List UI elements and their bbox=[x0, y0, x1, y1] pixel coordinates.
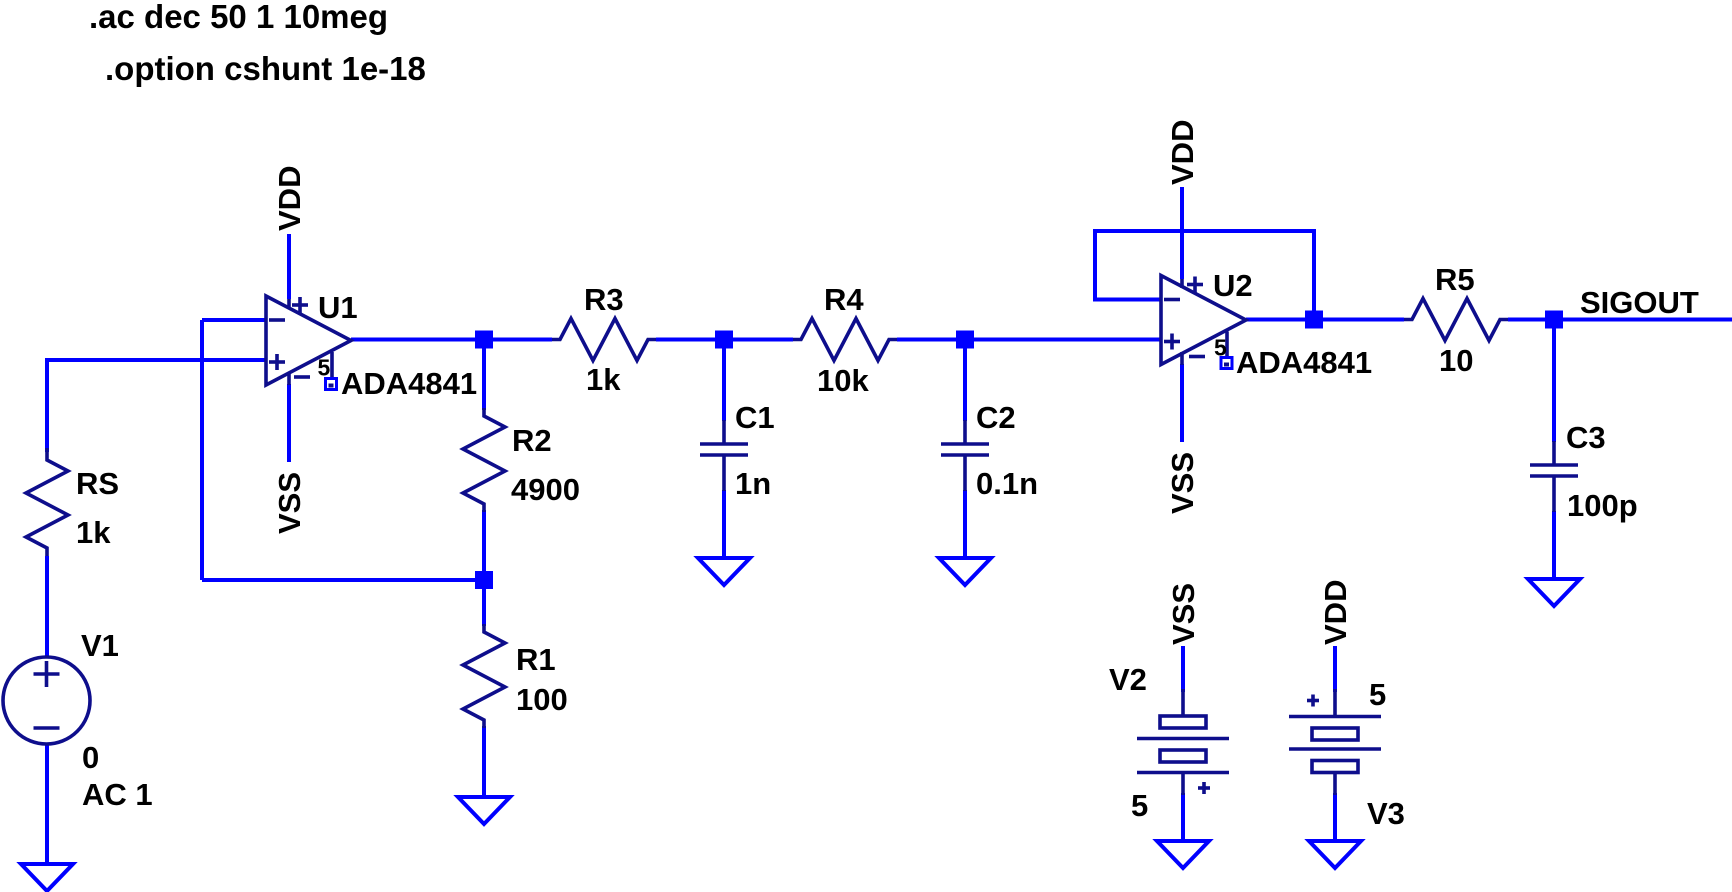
svg-text:VSS: VSS bbox=[1165, 452, 1200, 514]
svg-text:VSS: VSS bbox=[1166, 583, 1201, 645]
svg-text:V2: V2 bbox=[1109, 662, 1147, 697]
svg-text:5: 5 bbox=[1131, 788, 1148, 823]
svg-text:10: 10 bbox=[1439, 343, 1473, 378]
svg-text:RS: RS bbox=[76, 466, 119, 501]
svg-text:5: 5 bbox=[318, 355, 331, 381]
ground V3 bbox=[1309, 841, 1361, 868]
wire R1 to ground bbox=[482, 726, 486, 797]
svg-text:C1: C1 bbox=[735, 400, 775, 435]
voltage source V2 bbox=[1109, 662, 1229, 823]
svg-text:VDD: VDD bbox=[1165, 120, 1200, 185]
svg-text:R4: R4 bbox=[824, 282, 864, 317]
svg-text:0.1n: 0.1n bbox=[976, 466, 1038, 501]
svg-text:R1: R1 bbox=[516, 642, 556, 677]
svg-text:4900: 4900 bbox=[511, 472, 580, 507]
wire VDD to U1 bbox=[287, 234, 291, 299]
svg-text:0: 0 bbox=[82, 740, 99, 775]
svg-text:VDD: VDD bbox=[272, 166, 307, 231]
wire VSS to V2 bbox=[1181, 646, 1185, 692]
svg-text:AC 1: AC 1 bbox=[82, 777, 153, 812]
resistor RS bbox=[26, 448, 119, 556]
wire R4 to U2 plus input bbox=[897, 338, 1161, 342]
resistor R2 bbox=[463, 408, 580, 512]
svg-text:C3: C3 bbox=[1566, 420, 1606, 455]
wire V3 to ground bbox=[1333, 793, 1337, 841]
junction node U2 out bbox=[1305, 311, 1323, 329]
wire V2 to ground bbox=[1181, 793, 1185, 841]
junction node C2 bbox=[956, 331, 974, 349]
wire R2 to node bbox=[482, 510, 486, 580]
svg-text:100p: 100p bbox=[1567, 488, 1638, 523]
op-amp U2 bbox=[1161, 268, 1372, 380]
op-amp U1 bbox=[266, 290, 477, 401]
svg-text:1k: 1k bbox=[586, 362, 621, 397]
wire U1 minus input bbox=[202, 318, 266, 322]
wire V1 to ground bbox=[45, 744, 49, 864]
svg-text:U1: U1 bbox=[318, 290, 358, 325]
resistor R4 bbox=[793, 282, 897, 398]
wire SIGOUT node to C3 bbox=[1552, 320, 1556, 443]
wire VDD to U2 bbox=[1180, 187, 1184, 279]
junction node C1 bbox=[715, 331, 733, 349]
svg-text:.ac dec 50 1 10meg: .ac dec 50 1 10meg bbox=[89, 0, 388, 35]
wire U1 to VSS bbox=[287, 384, 291, 462]
ground V1 bbox=[21, 864, 73, 891]
wire VDD to V3 bbox=[1333, 646, 1337, 692]
junction node R2/R1 bbox=[475, 571, 493, 589]
ground C1 bbox=[698, 558, 750, 585]
junction node SIGOUT bbox=[1545, 311, 1563, 329]
wire RS to V1 bbox=[45, 556, 49, 658]
svg-text:V1: V1 bbox=[81, 628, 119, 663]
svg-text:VSS: VSS bbox=[272, 472, 307, 534]
ground C2 bbox=[939, 558, 991, 585]
wire node to R2 bbox=[482, 340, 486, 411]
svg-text:U2: U2 bbox=[1213, 268, 1253, 303]
wire U2 output to R5 bbox=[1246, 318, 1404, 322]
svg-text:SIGOUT: SIGOUT bbox=[1580, 285, 1699, 320]
svg-text:R2: R2 bbox=[512, 423, 552, 458]
wire R5 to SIGOUT right edge bbox=[1508, 318, 1732, 322]
svg-text:10k: 10k bbox=[817, 363, 869, 398]
svg-text:R3: R3 bbox=[584, 282, 624, 317]
ground V2 bbox=[1157, 841, 1209, 868]
svg-text:V3: V3 bbox=[1367, 796, 1405, 831]
wire feedback bottom to R2/R1 node bbox=[202, 578, 484, 582]
svg-text:ADA4841: ADA4841 bbox=[341, 366, 477, 401]
voltage source V3 bbox=[1289, 677, 1405, 831]
svg-text:100: 100 bbox=[516, 682, 568, 717]
svg-text:VDD: VDD bbox=[1318, 580, 1353, 645]
resistor R5 bbox=[1404, 262, 1508, 378]
capacitor C2 bbox=[941, 400, 1038, 501]
wire RS top to U1 plus input bbox=[47, 360, 266, 452]
svg-text:5: 5 bbox=[1369, 677, 1386, 712]
wire C3 to ground bbox=[1552, 511, 1556, 579]
ground C3 bbox=[1528, 579, 1580, 606]
svg-text:1n: 1n bbox=[735, 466, 771, 501]
wire node to C2 bbox=[963, 340, 967, 422]
wire C2 to ground bbox=[963, 490, 967, 558]
wire U2 feedback loop bbox=[1095, 231, 1314, 320]
wire feedback vertical bbox=[200, 320, 204, 580]
wire C1 to ground bbox=[722, 490, 726, 558]
ground R1 bbox=[458, 797, 510, 824]
svg-text:.option cshunt 1e-18: .option cshunt 1e-18 bbox=[105, 50, 426, 87]
wire node to R1 bbox=[482, 580, 486, 626]
voltage source V1 bbox=[3, 628, 153, 812]
svg-text:C2: C2 bbox=[976, 400, 1016, 435]
wire R3 to R4 bbox=[656, 338, 793, 342]
capacitor C3 bbox=[1530, 420, 1638, 523]
wire U2 to VSS bbox=[1180, 364, 1184, 442]
svg-text:ADA4841: ADA4841 bbox=[1236, 345, 1372, 380]
resistor R3 bbox=[552, 282, 656, 397]
resistor R1 bbox=[463, 624, 568, 728]
svg-text:R5: R5 bbox=[1435, 262, 1475, 297]
capacitor C1 bbox=[700, 400, 775, 501]
wire node to C1 bbox=[722, 340, 726, 422]
wire U1 output to R3 bbox=[351, 338, 552, 342]
svg-text:1k: 1k bbox=[76, 515, 111, 550]
junction node U1 out bbox=[475, 331, 493, 349]
